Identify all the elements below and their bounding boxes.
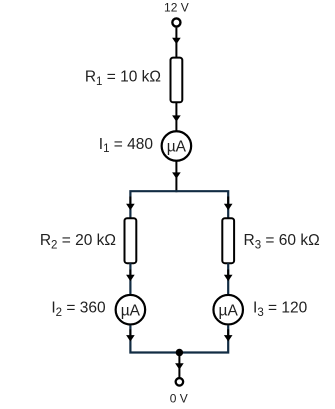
- value label I1 = 480: [99, 136, 154, 155]
- current direction arrow I2 to bottom rail: [126, 329, 135, 341]
- ammeter U3 (microammeter): [213, 295, 243, 325]
- node label 12 V: [164, 1, 189, 15]
- svg-text:I3 = 120: I3 = 120: [253, 300, 308, 319]
- svg-text:µA: µA: [219, 302, 239, 319]
- value label I3 = 120: [253, 300, 308, 319]
- svg-text:µA: µA: [121, 302, 141, 319]
- wire R2 to I2: [129, 263, 131, 294]
- current direction arrow between R1 and I1: [172, 115, 181, 121]
- svg-text:0 V: 0 V: [170, 391, 188, 405]
- svg-text:R1 = 10 kΩ: R1 = 10 kΩ: [85, 69, 161, 88]
- node label 0 V: [170, 391, 188, 405]
- svg-text:µA: µA: [167, 139, 187, 156]
- current direction arrow between R2 and I2: [126, 270, 135, 282]
- current direction arrow into R2: [126, 197, 135, 211]
- resistor R2: [125, 218, 137, 263]
- value label R1 = 10 kOhm: [85, 69, 161, 88]
- terminal 12 V: [172, 18, 180, 26]
- svg-text:R2 = 20 kΩ: R2 = 20 kΩ: [40, 232, 116, 251]
- wire bottom rail node B: [130, 325, 228, 352]
- svg-text:I1 = 480: I1 = 480: [99, 136, 154, 155]
- resistor R1: [171, 58, 183, 103]
- wire R3 to I3: [227, 263, 229, 294]
- current direction arrow into R3: [224, 197, 233, 211]
- current direction arrow I3 to bottom rail: [224, 329, 233, 341]
- wire R1 to I1: [175, 102, 177, 131]
- terminal 0 V: [176, 378, 184, 386]
- wire top rail node A: [130, 191, 228, 218]
- value label R2 = 20 kOhm: [40, 232, 116, 251]
- value label R3 = 60 kOhm: [244, 232, 320, 251]
- current direction arrow to 0 V: [175, 363, 184, 369]
- wire I1 to node A: [175, 161, 177, 192]
- ammeter U2 (microammeter): [116, 295, 146, 325]
- current direction arrow on source wire: [172, 38, 181, 44]
- current direction arrow between R3 and I3: [224, 270, 233, 282]
- wire source to R1: [175, 28, 177, 58]
- svg-text:R3 = 60 kΩ: R3 = 60 kΩ: [244, 232, 320, 251]
- resistor R3: [222, 218, 234, 263]
- svg-text:I2 = 360: I2 = 360: [51, 300, 106, 319]
- junction node B: [176, 349, 184, 357]
- current direction arrow between I1 and node A: [172, 172, 181, 178]
- svg-text:12 V: 12 V: [164, 1, 189, 15]
- ammeter U1 (microammeter): [162, 131, 192, 161]
- wire node B to 0 V terminal: [178, 353, 180, 378]
- value label I2 = 360: [51, 300, 106, 319]
